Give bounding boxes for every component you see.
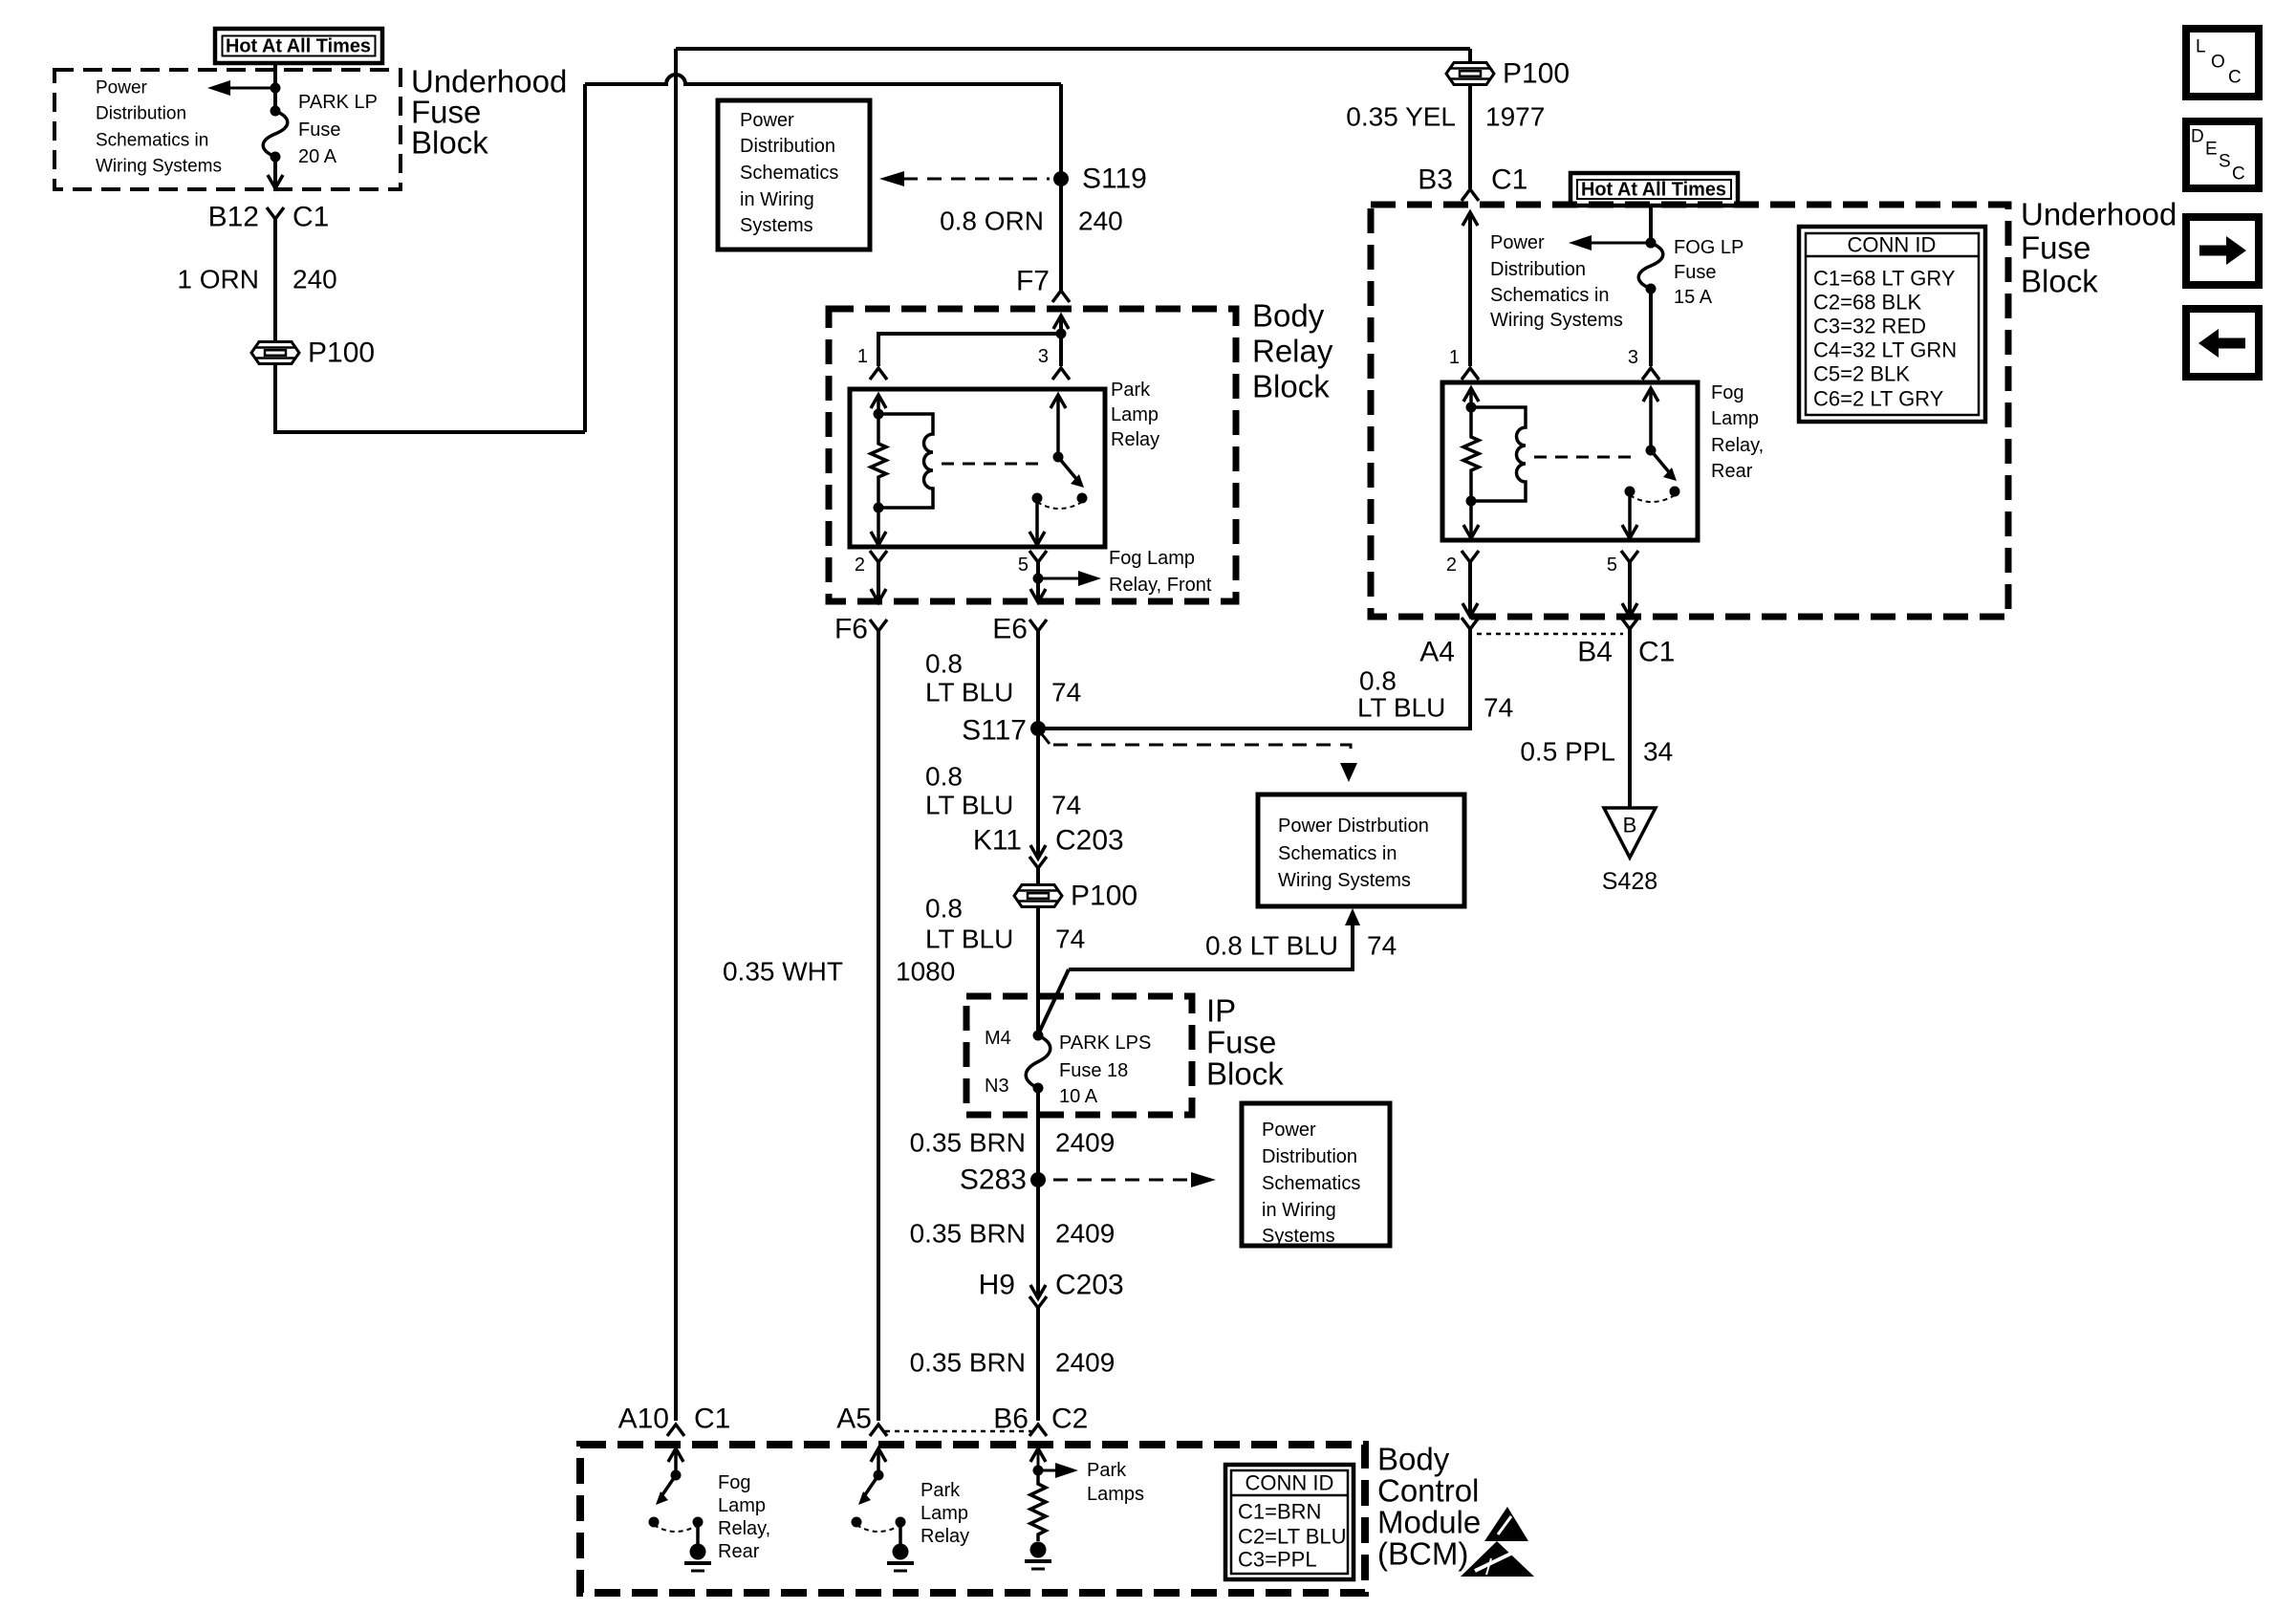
wire fuse to pin 3 [1649,289,1653,366]
svg-text:Fuse: Fuse [2021,230,2090,266]
svg-text:Lamps: Lamps [1087,1484,1144,1505]
svg-text:C: C [2232,164,2245,185]
CONN ID table (underhood fuse block) [1799,227,1985,422]
dashed arrow S119 to power distribution note [879,171,1050,186]
svg-text:Power: Power [96,78,148,98]
note box Power Distrbution Schematics in Wiring Systems (middle right) [1258,794,1464,906]
svg-text:0.5 PPL: 0.5 PPL [1520,737,1615,767]
svg-text:S283: S283 [960,1164,1027,1196]
grommet P100 (left) [251,337,375,369]
svg-text:15 A: 15 A [1674,287,1713,308]
svg-text:74: 74 [1484,693,1513,723]
sidebar previous arrow box [2186,309,2259,377]
svg-text:M4: M4 [985,1028,1011,1049]
svg-text:1: 1 [857,346,868,367]
svg-text:Body: Body [1252,298,1325,334]
svg-text:Relay: Relay [1111,429,1159,450]
svg-text:Schematics: Schematics [1262,1173,1360,1194]
pin 1 (park lamp relay) [857,346,887,380]
connector C1 pin B12 [208,202,330,233]
svg-text:LT BLU: LT BLU [925,678,1013,707]
svg-text:3: 3 [1628,347,1638,368]
svg-text:C2=68 BLK: C2=68 BLK [1813,291,1921,315]
svg-text:2409: 2409 [1055,1348,1115,1378]
label PARK LPS Fuse 18 10 A [1059,1033,1151,1107]
svg-text:in Wiring: in Wiring [740,189,814,210]
wire F7 entry into body relay block [1053,315,1069,334]
wire long vertical A10 column [674,49,678,1421]
wire E6 down to S117 [1036,631,1040,729]
svg-text:Lamp: Lamp [1711,408,1759,429]
label 0.35 BRN 2409 (below S283) [910,1219,1116,1249]
svg-text:0.35 BRN: 0.35 BRN [910,1128,1026,1158]
underhood fuse block dashed box (left) [54,70,401,189]
wire P100 down into IP fuse block to fuse M4 [1036,907,1040,1035]
svg-text:Distribution: Distribution [1490,259,1586,280]
splice S283 [960,1164,1046,1196]
svg-text:34: 34 [1643,737,1673,767]
svg-text:A10: A10 [618,1403,669,1435]
svg-text:B3: B3 [1418,164,1453,196]
switch Park Lamp Relay driver (BCM) [852,1448,915,1571]
svg-text:240: 240 [1078,207,1123,236]
svg-text:LT BLU: LT BLU [925,791,1013,820]
svg-text:Schematics in: Schematics in [1278,843,1397,864]
svg-text:Module: Module [1377,1505,1481,1540]
node junction fog lamp relay front branch [1033,574,1044,584]
svg-text:C203: C203 [1055,1270,1124,1301]
label Fog Lamp Relay Rear [1711,382,1764,482]
svg-text:C1=68 LT GRY: C1=68 LT GRY [1813,267,1956,291]
svg-text:F7: F7 [1016,266,1050,297]
svg-text:Systems: Systems [740,215,813,236]
svg-text:H9: H9 [979,1270,1015,1301]
svg-text:C2: C2 [1051,1403,1088,1435]
svg-text:2409: 2409 [1055,1219,1115,1249]
connector C203 pin H9 [979,1270,1124,1309]
grommet P100 (top right) [1446,58,1570,90]
svg-text:Lamp: Lamp [921,1503,968,1524]
svg-text:Block: Block [1206,1056,1284,1092]
svg-text:Power: Power [740,110,794,131]
svg-text:A4: A4 [1419,637,1455,668]
svg-text:P100: P100 [308,337,375,369]
svg-text:1 ORN: 1 ORN [177,265,259,294]
arrow to power distribution schematics (left) [207,80,281,96]
svg-text:Schematics: Schematics [740,163,838,184]
relay Park Lamp Relay [850,389,1105,547]
svg-text:Park: Park [921,1480,961,1501]
svg-text:Relay,: Relay, [718,1518,770,1539]
svg-text:PARK LP: PARK LP [298,92,378,113]
switch Fog Lamp Relay Rear driver (BCM) [649,1448,712,1571]
label 0.35 BRN 2409 (above S283) [910,1128,1116,1158]
body relay block dashed box [829,309,1236,601]
svg-text:S428: S428 [1602,868,1657,895]
svg-text:Relay: Relay [921,1526,969,1547]
label 0.35 BRN 2409 (lower) [910,1348,1116,1378]
fuse PARK LP 20 A [263,88,288,163]
svg-text:Block: Block [411,125,488,161]
label 0.8 LT BLU 74 (below S117) [925,762,1081,820]
wire 0.8 ORN 240 down to S119 [1059,84,1063,291]
svg-text:Block: Block [2021,264,2098,299]
svg-text:Wiring Systems: Wiring Systems [96,157,222,177]
wire pin 5 to box edge [1030,562,1046,602]
svg-text:1977: 1977 [1485,102,1545,132]
svg-text:in Wiring: in Wiring [1262,1200,1336,1221]
svg-text:Distribution: Distribution [96,104,186,124]
svg-text:C1: C1 [292,202,329,233]
connector C1 pin A4 [1419,618,1479,668]
wire P100 down and across to riser [275,364,585,432]
svg-text:0.35 WHT: 0.35 WHT [723,957,843,987]
ESD sensitive symbol [1461,1507,1534,1577]
svg-text:CONN ID: CONN ID [1245,1471,1334,1495]
svg-text:O: O [2211,53,2225,73]
svg-text:1: 1 [1449,347,1460,368]
svg-text:0.35 BRN: 0.35 BRN [910,1219,1026,1249]
pin 2 below park lamp relay [855,551,887,576]
relay Fog Lamp Relay Rear [1442,382,1698,540]
connector C203 pin K11 [973,825,1124,869]
svg-text:0.8 ORN: 0.8 ORN [940,207,1044,236]
node junction pin3 branch [1056,329,1067,339]
label Fog Lamp Relay Rear (BCM) [718,1472,770,1562]
svg-text:5: 5 [1018,555,1029,576]
svg-text:F6: F6 [834,614,868,645]
arrow to Park Lamps [1038,1460,1144,1505]
connector C1 pin A10 [618,1403,731,1437]
wire pin 2 to box edge [871,562,886,602]
connector C1 pin A5 [836,1403,887,1437]
svg-text:74: 74 [1051,678,1081,707]
label IP Fuse Block [1206,993,1284,1092]
park lamps load (BCM) [1025,1448,1051,1569]
svg-text:Fog Lamp: Fog Lamp [1109,548,1195,569]
CONN ID table (BCM) [1225,1465,1354,1579]
connector F7 [1016,266,1070,303]
note box Power Distribution Schematics in Wiring Systems (lower right) [1242,1103,1390,1247]
svg-text:D: D [2191,127,2204,147]
note box Power Distribution Schematics in Wiring Systems (top middle) [718,100,870,250]
svg-text:S119: S119 [1082,163,1147,195]
svg-text:C2=LT BLU: C2=LT BLU [1238,1525,1347,1549]
svg-text:P100: P100 [1503,58,1570,90]
svg-text:Relay: Relay [1252,334,1333,369]
splice S119 [1053,163,1147,195]
ground G S428 [1602,808,1657,895]
wire B4 0.5 PPL 34 to ground [1520,629,1673,808]
svg-text:C3=32 RED: C3=32 RED [1813,315,1926,338]
svg-text:C1: C1 [1638,637,1675,668]
svg-text:PARK LPS: PARK LPS [1059,1033,1151,1054]
svg-text:2: 2 [855,555,865,576]
wire S117 across to fog lamp relay rear pin 2 (A4) [1038,629,1470,729]
svg-text:Body: Body [1377,1442,1450,1477]
connector F6 [834,614,887,645]
label Underhood Fuse Block (right) [2021,197,2177,299]
svg-text:(BCM): (BCM) [1377,1536,1468,1572]
svg-text:C5=2 BLK: C5=2 BLK [1813,362,1910,386]
svg-text:0.35 BRN: 0.35 BRN [910,1348,1026,1378]
label 0.8 LT BLU 74 (branch run) [1205,931,1397,961]
svg-text:Fuse: Fuse [298,120,340,141]
svg-text:Relay,: Relay, [1711,435,1764,456]
svg-text:FOG LP: FOG LP [1674,237,1744,258]
sidebar next arrow box [2186,217,2259,285]
pin 3 (park lamp relay) [1038,346,1070,380]
svg-text:B6: B6 [993,1403,1029,1435]
arrow to power distribution schematics (right) [1569,235,1657,250]
svg-text:C4=32 LT GRN: C4=32 LT GRN [1813,338,1957,362]
svg-text:2409: 2409 [1055,1128,1115,1158]
svg-text:Park: Park [1087,1460,1127,1481]
svg-text:Control: Control [1377,1473,1479,1509]
svg-text:Fog: Fog [718,1472,750,1493]
svg-text:Wiring Systems: Wiring Systems [1490,310,1623,331]
pin 3 (fog lamp relay rear) [1628,347,1659,380]
wire riser up to horizontal run [583,84,587,432]
wire 0.8 LT BLU 74 run to power distrbution note [1069,908,1360,969]
svg-text:1080: 1080 [896,957,955,987]
svg-text:B: B [1623,814,1637,838]
label 0.8 LT BLU 74 (below P100) [925,894,1085,954]
svg-text:Hot At All Times: Hot At All Times [226,35,371,57]
svg-text:0.8: 0.8 [925,762,963,792]
svg-text:Fog: Fog [1711,382,1744,403]
svg-text:240: 240 [292,265,337,294]
Hot At All Times box (right) [1570,173,1738,206]
connector C1 pin B3 [1418,164,1527,202]
svg-text:Distribution: Distribution [740,136,835,157]
wire pin 2 to box edge [1462,562,1478,617]
connector grouping line A5-B6 [885,1430,1031,1433]
svg-text:Schematics in: Schematics in [1490,285,1610,306]
svg-text:C6=2 LT GRY: C6=2 LT GRY [1813,387,1944,411]
arrow to Fog Lamp Relay Front [1038,548,1212,596]
svg-text:20 A: 20 A [298,146,337,167]
label 0.35 WHT 1080 [723,957,955,987]
svg-text:0.8 LT BLU: 0.8 LT BLU [1205,931,1338,961]
connector C1 pin B4 [1577,618,1675,668]
svg-text:Fuse: Fuse [1674,262,1716,283]
svg-text:5: 5 [1607,555,1617,576]
Hot At All Times box (left) [215,29,382,63]
svg-text:S117: S117 [962,715,1027,747]
svg-text:IP: IP [1206,993,1236,1029]
svg-text:Lamp: Lamp [1111,404,1159,425]
svg-text:LT BLU: LT BLU [1357,693,1445,723]
wire C203 to P100 [1036,868,1040,884]
wire top run from BCM A10 column to right P100 [676,47,1470,51]
wire pin 5 to box edge [1622,562,1637,617]
svg-text:Power: Power [1262,1120,1316,1141]
svg-text:74: 74 [1055,925,1085,954]
svg-text:A5: A5 [836,1403,872,1435]
svg-text:0.8: 0.8 [925,894,963,924]
wire Hot At All Times to FOG LP fuse [1649,206,1653,243]
svg-text:Fuse: Fuse [1206,1025,1276,1060]
connector C2 pin B6 [993,1403,1088,1437]
svg-text:0.8: 0.8 [925,649,963,679]
wire H9 to BCM B6 [1036,1308,1040,1421]
svg-text:L: L [2196,37,2206,57]
svg-text:Hot At All Times: Hot At All Times [1581,179,1726,201]
label Body Relay Block [1252,298,1333,404]
wire N3 down to S283 and H9 [1036,1088,1040,1298]
label Park Lamp Relay (BCM) [921,1480,969,1547]
svg-text:E6: E6 [992,614,1028,645]
pin 1 (fog lamp relay rear) [1449,347,1479,380]
sidebar DESC box [2186,121,2259,188]
pin 5 below park lamp relay [1018,551,1047,576]
pin 5 below fog lamp relay rear [1607,551,1638,576]
svg-text:Power Distrbution: Power Distrbution [1278,816,1429,837]
svg-text:2: 2 [1446,555,1457,576]
wire branch diagonal to 0.8 LT BLU 74 run [1039,969,1069,1033]
svg-text:Relay, Front: Relay, Front [1109,575,1212,596]
svg-text:S: S [2219,152,2231,172]
svg-text:B12: B12 [208,202,259,233]
svg-text:Underhood: Underhood [2021,197,2177,232]
wire pin 3 stub [1059,334,1063,366]
label 0.8 ORN 240 [940,207,1123,236]
svg-text:C1: C1 [1491,164,1527,196]
label Park Lamp Relay [1111,380,1159,450]
svg-text:C203: C203 [1055,825,1124,857]
note Power Distribution Schematics in Wiring Systems (left fuse block) [96,78,222,177]
svg-text:Park: Park [1111,380,1151,401]
wire 1 ORN 240 [177,219,336,341]
svg-text:C3=PPL: C3=PPL [1238,1548,1317,1572]
note Power Distribution Schematics in Wiring Systems (right fuse block) [1490,232,1623,331]
svg-text:Schematics in: Schematics in [96,131,208,151]
svg-text:74: 74 [1367,931,1397,961]
label Body Control Module (BCM) [1377,1442,1481,1572]
svg-text:CONN ID: CONN ID [1848,233,1937,257]
svg-text:P100: P100 [1071,881,1137,912]
fuse FOG LP 15 A [1638,238,1663,294]
svg-text:K11: K11 [973,825,1022,857]
wire S117 down to connector C203 K11 [1036,729,1040,859]
label 0.8 LT BLU 74 (E6 segment) [925,649,1081,707]
underhood fuse block dashed box (right) [1371,205,2008,617]
wire from Hot At All Times into fuse block [273,63,277,88]
fuse PARK LPS Fuse 18 10 A [1026,1031,1051,1094]
wire 0.35 YEL 1977 [1346,49,1545,188]
svg-text:0.35 YEL: 0.35 YEL [1346,102,1456,132]
svg-text:N3: N3 [985,1076,1009,1097]
grommet P100 (middle) [1014,881,1137,912]
body control module dashed box [580,1445,1365,1593]
connector E6 [992,614,1047,645]
svg-text:Rear: Rear [1711,461,1753,482]
label FOG LP Fuse 15 A [1674,237,1744,308]
svg-text:C1=BRN: C1=BRN [1238,1500,1321,1524]
svg-text:Block: Block [1252,369,1330,404]
svg-text:Power: Power [1490,232,1545,253]
pin 2 below fog lamp relay rear [1446,551,1479,576]
wire branch to pin 1 [878,334,1061,366]
IP fuse block dashed box [966,996,1192,1115]
svg-text:Fuse 18: Fuse 18 [1059,1060,1128,1081]
svg-text:C1: C1 [694,1403,730,1435]
svg-text:Distribution: Distribution [1262,1146,1357,1167]
svg-text:10 A: 10 A [1059,1086,1098,1107]
label Underhood Fuse Block (left) [411,64,567,161]
svg-text:B4: B4 [1577,637,1613,668]
dashed wire S117 to power distrbution note [1042,734,1357,782]
svg-text:Wiring Systems: Wiring Systems [1278,870,1411,891]
svg-text:Lamp: Lamp [718,1495,766,1516]
connector grouping line A4-B4 [1477,633,1623,636]
svg-text:C: C [2228,68,2242,88]
label PARK LP Fuse 20 A [298,92,378,167]
sidebar LOC box [2186,29,2259,97]
svg-text:LT BLU: LT BLU [925,925,1013,954]
svg-text:E: E [2205,140,2218,160]
wire fuse output to connector C1 pin B12 [268,157,283,188]
dashed arrow S283 to power distribution note [1053,1172,1216,1187]
wire B3 entry into underhood fuse block [1462,212,1478,366]
wire F6 0.35 WHT 1080 down to BCM A5 [877,631,880,1421]
svg-text:Rear: Rear [718,1541,760,1562]
wire horizontal run to S119 branch with hop over vertical [585,75,1061,84]
svg-text:74: 74 [1051,791,1081,820]
label 0.8 LT BLU 74 (A4 wire) [1357,666,1513,723]
svg-text:0.8: 0.8 [1359,666,1397,696]
splice S117 [962,715,1046,747]
svg-text:3: 3 [1038,346,1049,367]
svg-text:Systems: Systems [1262,1226,1335,1247]
